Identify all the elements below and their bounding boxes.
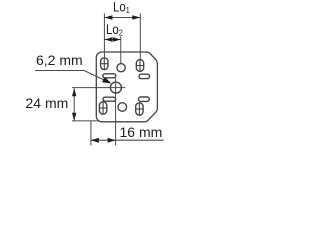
leader arrowhead pointing at centre pin — [102, 77, 111, 84]
wire: extension line Lo1/Lo2 left (x=104.4) — [103, 14, 105, 58]
label Lo1 — [113, 0, 130, 15]
blade slot top-right — [139, 74, 150, 78]
blade slot bottom-left — [103, 97, 116, 101]
leader line for 6,2 mm — [35, 71, 110, 83]
svg-text:24 mm: 24 mm — [26, 95, 69, 111]
screw contact bottom-left with cross — [99, 102, 106, 114]
hole top circle — [117, 64, 125, 72]
wire: 24 mm top reference line merging into pin crosshair horizontal — [72, 87, 125, 89]
wire: centre pin vertical centreline and 16 mm right extension (x=115.6) — [115, 79, 117, 146]
wire: 16 mm left extension line (x=90.9) — [90, 121, 92, 145]
screw contact top-left with cross — [101, 58, 108, 70]
blade slot top-left — [103, 74, 116, 78]
hole bottom circle — [118, 103, 127, 112]
screw contact bottom-right with cross — [136, 103, 143, 115]
svg-text:6,2 mm: 6,2 mm — [36, 52, 83, 68]
dimension Lo1 line with arrows — [104, 15, 140, 19]
connector body outline — [96, 52, 157, 122]
dimension 16 mm line with arrows — [91, 138, 164, 143]
centre pin circle — [110, 82, 121, 93]
svg-text:16 mm: 16 mm — [120, 124, 163, 140]
wire: 24 mm bottom reference line — [72, 120, 99, 122]
wire: extension line Lo1 right (x=140.3) — [139, 14, 141, 60]
dimension Lo2 line with arrows — [104, 37, 120, 41]
blade slot bottom-right — [139, 97, 150, 101]
screw contact top-right with cross — [136, 60, 143, 72]
dimension 24 mm vertical line with arrows — [72, 88, 76, 121]
label Lo2 — [106, 22, 123, 37]
wire: extension line Lo2 right to top circle (x=120.8) — [120, 36, 122, 63]
